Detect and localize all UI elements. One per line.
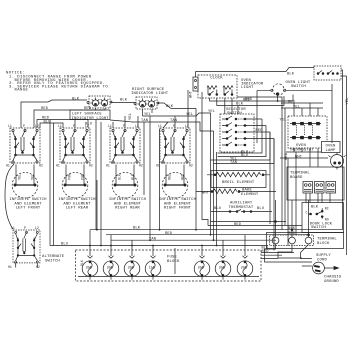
selector switch xyxy=(220,114,254,152)
svg-text:H2: H2 xyxy=(189,164,193,168)
svg-text:L1: L1 xyxy=(8,124,12,128)
svg-text:YEL: YEL xyxy=(208,110,215,114)
vertical supply runs between blocks 1,2 xyxy=(50,120,54,246)
bottom bus BLK xyxy=(90,180,343,231)
svg-text:20A: 20A xyxy=(241,265,247,269)
supply cord label xyxy=(316,254,331,262)
svg-text:RED: RED xyxy=(84,107,92,111)
svg-text:WHT: WHT xyxy=(202,191,210,195)
svg-text:LEFT REAR: LEFT REAR xyxy=(66,207,89,211)
svg-text:RED: RED xyxy=(262,250,270,254)
curve wire block1 H1 to alternate switch xyxy=(5,164,14,229)
svg-text:BLK: BLK xyxy=(131,174,135,180)
left surface indicator light label box xyxy=(70,110,110,121)
svg-text:YEL: YEL xyxy=(346,97,350,104)
svg-text:GROUND: GROUND xyxy=(324,280,339,284)
wire RED right of clock xyxy=(237,97,282,130)
svg-text:LAMP: LAMP xyxy=(326,149,336,153)
wire RED lower-left xyxy=(37,117,88,129)
oven indicator light lamp xyxy=(257,84,332,102)
vertical supply runs between blocks 3,4 xyxy=(144,116,160,240)
terminal block output wires xyxy=(261,244,312,262)
wire stubs bake xyxy=(196,191,276,193)
caption right front xyxy=(159,198,197,211)
svg-text:BLK: BLK xyxy=(120,99,128,103)
selector switch label xyxy=(226,108,246,116)
svg-text:RED: RED xyxy=(288,101,296,105)
bake element xyxy=(202,189,259,197)
svg-text:P: P xyxy=(23,124,25,128)
svg-text:PUR: PUR xyxy=(81,174,85,180)
svg-text:TERMINAL: TERMINAL xyxy=(290,172,310,176)
svg-text:RIGHT REAR: RIGHT REAR xyxy=(115,207,140,211)
svg-text:BLU: BLU xyxy=(241,154,248,158)
wire BLK from right indicator to selector column xyxy=(158,103,196,109)
fuse 3 20A xyxy=(124,256,140,280)
right column verticals xyxy=(332,84,350,143)
infinite switch RIGHT REAR S3 xyxy=(106,124,143,168)
terminal board xyxy=(287,167,344,200)
svg-text:RED: RED xyxy=(256,129,264,133)
fuse 1 20A xyxy=(82,256,98,280)
svg-text:BROIL ELEMENT: BROIL ELEMENT xyxy=(222,181,255,185)
thermostat top stubs xyxy=(294,103,318,116)
svg-text:20A: 20A xyxy=(86,265,92,269)
vertical supply runs right of block 4 xyxy=(196,92,217,246)
svg-text:P: P xyxy=(24,226,26,230)
wire BLK to left indicator xyxy=(21,98,87,129)
fuse block xyxy=(76,250,262,281)
infinite switch LEFT REAR S2 xyxy=(56,124,93,168)
fuse block internal bus xyxy=(78,275,259,277)
svg-text:TERMINAL: TERMINAL xyxy=(317,238,337,242)
thermostat bottom stubs xyxy=(286,148,323,167)
top bus line BLK xyxy=(196,68,347,256)
svg-text:H1: H1 xyxy=(8,265,12,269)
svg-text:LIGHT: LIGHT xyxy=(241,86,254,90)
wire WHT xyxy=(280,155,328,159)
wire BLU left xyxy=(40,121,92,129)
wire RED clock to lamp xyxy=(210,95,293,103)
svg-text:BLK: BLK xyxy=(311,205,319,209)
door lock switch xyxy=(306,205,329,221)
svg-text:CORD: CORD xyxy=(317,258,327,262)
wire RED continuation to TAN start xyxy=(110,120,131,122)
wires below selector BLU BLU YEL TAN xyxy=(218,119,263,154)
svg-text:L1: L1 xyxy=(108,124,112,128)
svg-text:CLOCK: CLOCK xyxy=(210,76,223,80)
right surface indicator light label xyxy=(131,88,169,96)
svg-text:RED: RED xyxy=(181,174,185,180)
wire BLK between indicator boxes xyxy=(111,99,135,103)
svg-text:L1: L1 xyxy=(158,124,162,128)
svg-text:L1: L1 xyxy=(58,124,62,128)
svg-text:YEL: YEL xyxy=(18,174,22,180)
caption left front xyxy=(9,198,47,211)
auxiliary thermostat label xyxy=(229,202,254,210)
surface element RIGHT FRONT xyxy=(162,165,188,199)
selector bottom stubs xyxy=(223,152,225,153)
svg-text:NO: NO xyxy=(325,218,329,222)
fuse 4 15A xyxy=(145,256,161,280)
svg-text:TAN: TAN xyxy=(170,119,177,123)
svg-text:L2: L2 xyxy=(35,226,39,230)
svg-text:BLU: BLU xyxy=(44,121,51,125)
bottom bus RED xyxy=(106,232,308,236)
svg-text:RED: RED xyxy=(165,232,173,236)
svg-text:H2: H2 xyxy=(139,164,143,168)
oven lamp label xyxy=(322,142,341,153)
vertical supply runs between blocks 2,3 xyxy=(96,120,101,246)
infinite switch LEFT FRONT S1 xyxy=(6,124,43,168)
fuse 2 20A xyxy=(103,256,119,280)
wire TAN mid xyxy=(131,119,214,131)
svg-text:FUSE: FUSE xyxy=(167,256,177,260)
svg-text:BLK: BLK xyxy=(72,98,80,102)
oven light switch label xyxy=(286,73,311,90)
wire RED below aux xyxy=(210,222,286,227)
left surface indicator light xyxy=(87,96,112,110)
svg-text:H2: H2 xyxy=(39,164,43,168)
alternate switch H stubs xyxy=(16,264,38,268)
svg-text:20A: 20A xyxy=(219,265,225,269)
oven light switch xyxy=(314,66,341,80)
surface element RIGHT REAR xyxy=(112,165,138,199)
terminal block feeds xyxy=(275,200,310,237)
fuse 5 20A xyxy=(194,256,210,280)
svg-text:BOARD: BOARD xyxy=(290,176,303,180)
svg-text:BLK: BLK xyxy=(118,174,122,180)
svg-text:RED: RED xyxy=(285,152,289,160)
junction box left of clock xyxy=(193,72,198,92)
wire label WHT vertical xyxy=(190,90,194,98)
svg-text:PUR: PUR xyxy=(68,174,72,180)
svg-text:BLK: BLK xyxy=(287,73,295,77)
terminal board output stubs xyxy=(306,193,330,203)
svg-text:H1: H1 xyxy=(56,164,60,168)
svg-text:20A: 20A xyxy=(128,265,134,269)
oven thermostat label xyxy=(289,144,314,153)
bottom bus TAN xyxy=(111,237,276,241)
alternate switch xyxy=(8,226,40,269)
svg-text:OVEN: OVEN xyxy=(296,144,306,148)
svg-text:C: C xyxy=(306,211,308,215)
wire stubs to switch terminals blocks 3,4 xyxy=(113,90,188,128)
svg-text:SWITCH: SWITCH xyxy=(45,260,60,264)
svg-text:H2: H2 xyxy=(89,164,93,168)
svg-text:YEL: YEL xyxy=(129,113,133,120)
door lock switch box xyxy=(302,203,344,233)
svg-text:RED: RED xyxy=(234,223,242,227)
right wrap verticals xyxy=(257,91,296,251)
svg-text:H1: H1 xyxy=(6,164,10,168)
clock xyxy=(198,75,237,98)
svg-text:YEL: YEL xyxy=(31,174,35,180)
oven indicator light label xyxy=(241,79,264,90)
svg-text:INDICATOR LIGHT: INDICATOR LIGHT xyxy=(72,117,110,121)
fuse feed drops xyxy=(90,230,245,274)
svg-text:OVEN: OVEN xyxy=(326,144,336,148)
svg-text:THERMOSTAT: THERMOSTAT xyxy=(229,206,254,210)
right surface indicator light xyxy=(134,97,159,116)
svg-text:SWITCH: SWITCH xyxy=(291,85,306,89)
svg-text:BLK: BLK xyxy=(236,103,244,107)
svg-text:20A: 20A xyxy=(198,265,204,269)
svg-text:ALTERNATE: ALTERNATE xyxy=(42,255,65,259)
wire stubs broil xyxy=(207,174,270,176)
infinite switch RIGHT FRONT S4 xyxy=(156,124,193,168)
chassis ground label xyxy=(324,276,342,285)
svg-text:BLU: BLU xyxy=(214,207,221,211)
selector right-side wires xyxy=(245,119,274,139)
svg-text:H1: H1 xyxy=(106,164,110,168)
wire RED to thermostat xyxy=(281,101,323,105)
svg-text:RED: RED xyxy=(168,174,172,180)
bottom wire BLU-BLK xyxy=(50,243,269,251)
surface element LEFT FRONT xyxy=(12,165,38,199)
wire YEL to thermostat xyxy=(281,106,323,110)
oven thermostat xyxy=(288,116,327,148)
caption left rear xyxy=(58,198,96,211)
wire label RED selector row xyxy=(256,119,290,161)
terminal block xyxy=(270,235,314,246)
svg-text:BLK: BLK xyxy=(166,105,174,109)
svg-text:RED: RED xyxy=(41,107,49,111)
oven lamp xyxy=(329,153,346,170)
wire RED upper bus xyxy=(208,225,302,227)
wire YEL mid xyxy=(143,110,216,117)
svg-text:NC: NC xyxy=(325,206,329,210)
wire BLK under clock xyxy=(217,96,284,107)
svg-text:TAN: TAN xyxy=(141,119,148,123)
fuse 6 20A xyxy=(215,256,231,280)
svg-text:INDICATOR LIGHT: INDICATOR LIGHT xyxy=(131,92,169,96)
svg-text:YEL: YEL xyxy=(186,113,193,117)
wire RED upper-left xyxy=(34,107,105,128)
wire RED to terminal xyxy=(261,250,294,254)
svg-text:L1: L1 xyxy=(11,226,15,230)
svg-text:ELEMENT: ELEMENT xyxy=(241,193,259,197)
svg-text:TAN: TAN xyxy=(230,161,237,165)
svg-text:15A: 15A xyxy=(149,265,155,269)
notice text xyxy=(6,71,108,92)
svg-text:BLOCK: BLOCK xyxy=(167,260,180,264)
svg-text:RIGHT FRONT: RIGHT FRONT xyxy=(164,207,192,211)
svg-text:20A: 20A xyxy=(107,265,113,269)
caption right rear xyxy=(109,198,147,211)
door lock switch label xyxy=(310,222,333,230)
alternate switch label xyxy=(42,255,65,264)
supply cord plug xyxy=(302,262,339,274)
junction dots bus xyxy=(89,229,217,247)
svg-text:RANGE: RANGE xyxy=(15,89,29,93)
terminal block label xyxy=(317,238,337,247)
svg-text:BLOCK: BLOCK xyxy=(317,242,330,246)
svg-text:RED: RED xyxy=(243,98,251,102)
svg-text:YEL: YEL xyxy=(280,119,287,123)
clock-to-selector feeds xyxy=(225,98,238,114)
auxiliary thermostat xyxy=(211,207,272,212)
svg-text:BLK: BLK xyxy=(133,227,141,231)
svg-text:WHT: WHT xyxy=(190,90,194,98)
svg-text:LEFT FRONT: LEFT FRONT xyxy=(16,207,41,211)
svg-text:H2: H2 xyxy=(36,265,40,269)
terminal block outer box xyxy=(267,233,344,249)
svg-text:BLU: BLU xyxy=(257,207,264,211)
svg-text:CHASSIS: CHASSIS xyxy=(324,276,342,280)
surface element LEFT REAR xyxy=(62,165,88,199)
svg-text:BLU: BLU xyxy=(85,123,92,127)
svg-text:BLU: BLU xyxy=(61,243,68,247)
broil element xyxy=(211,171,266,188)
fuse 7 20A xyxy=(237,256,253,280)
